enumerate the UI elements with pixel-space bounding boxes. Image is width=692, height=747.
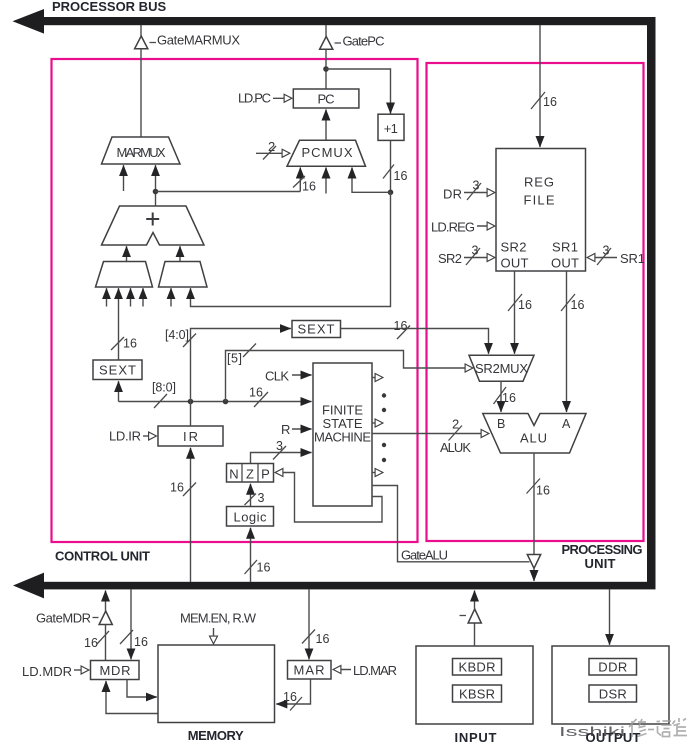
- node +1 output junction: [388, 190, 394, 196]
- svg-text:SR2MUX: SR2MUX: [475, 361, 528, 376]
- svg-text:PROCESSING: PROCESSING: [562, 542, 643, 557]
- svg-text:[8:0]: [8:0]: [152, 381, 176, 395]
- svg-text:MEM.EN, R.W: MEM.EN, R.W: [180, 611, 257, 626]
- svg-text:3: 3: [473, 179, 480, 193]
- svg-text:16: 16: [123, 337, 137, 351]
- memory block MEMORY: [158, 645, 275, 743]
- mux MARMUX: [102, 137, 181, 164]
- svg-text:ALUK: ALUK: [440, 440, 471, 455]
- svg-text:MACHINE: MACHINE: [314, 430, 371, 445]
- node PC output junction: [323, 66, 329, 72]
- wire bus to IR: [190, 448, 192, 582]
- wire junction down to ADDR1MUX: [191, 192, 391, 306]
- bus width slash 16 IR to FSM: [249, 386, 268, 408]
- wire PCMUX to PC: [325, 110, 327, 141]
- bus width slash 3 on NZP wire: [273, 439, 286, 460]
- wire IR[8:0] to SEXT: [118, 381, 120, 401]
- svg-text:16: 16: [257, 561, 271, 575]
- svg-text:3: 3: [472, 244, 479, 258]
- system bus (bottom): [13, 573, 656, 599]
- processor bus (top): [13, 9, 656, 34]
- sign extender SEXT [8:0]: [93, 360, 142, 380]
- alu ALU: [483, 414, 586, 454]
- signal R: [281, 422, 312, 437]
- svg-text:GateMDR: GateMDR: [36, 611, 91, 626]
- svg-text:LD.MAR: LD.MAR: [353, 663, 397, 678]
- svg-text:MARMUX: MARMUX: [117, 145, 166, 160]
- tri-state buffer GatePC: [320, 34, 385, 50]
- wire SEXT2 output to SR2MUX: [341, 329, 489, 354]
- bus width slash 16 on Logic input: [245, 560, 271, 575]
- bus width slash 16 on SR2MUX output: [494, 387, 516, 405]
- svg-text:16: 16: [571, 298, 585, 312]
- svg-text:KBDR: KBDR: [459, 660, 496, 675]
- adder: [102, 206, 205, 245]
- svg-text:GatePC: GatePC: [343, 34, 385, 49]
- signal LD.REG: [431, 220, 495, 235]
- wire bus to Logic: [250, 528, 252, 582]
- node adder output junction: [153, 189, 159, 195]
- svg-text:UNIT: UNIT: [585, 556, 616, 571]
- wire bus to MDR: [130, 589, 132, 659]
- wire SR1OUT to ALU: [566, 271, 568, 412]
- svg-text:GateALU: GateALU: [401, 548, 448, 563]
- increment unit +1: [378, 114, 404, 140]
- wire IR[4:0] to SEXT2: [191, 329, 291, 402]
- FSM output arrow 1: [372, 377, 383, 379]
- control unit box: [52, 59, 418, 542]
- logic block Logic: [227, 507, 274, 527]
- svg-text:FILE: FILE: [524, 193, 555, 208]
- wire ADDR2MUX input stub 3: [130, 288, 132, 306]
- register MDR: [91, 661, 140, 680]
- bus width slash 16 on REG FILE input: [531, 92, 557, 109]
- wire ADDR2MUX input stub 1: [106, 288, 108, 306]
- node IR junction: [188, 399, 194, 405]
- wire junction to +1: [326, 69, 391, 114]
- svg-text:MDR: MDR: [100, 663, 131, 678]
- svg-text:SEXT: SEXT: [298, 322, 335, 337]
- svg-text:N: N: [229, 467, 238, 482]
- svg-text:B: B: [497, 417, 505, 431]
- bus width slash 16 on MAR input: [302, 630, 329, 647]
- svg-text:INPUT: INPUT: [455, 730, 497, 745]
- svg-text:3: 3: [258, 491, 265, 505]
- wire IR[5] to SR2MUX select: [226, 351, 473, 402]
- svg-text:SR2: SR2: [438, 251, 462, 266]
- processing unit label: [562, 542, 643, 571]
- watermark: [559, 718, 687, 739]
- sign extender SEXT [4:0]: [292, 321, 341, 338]
- svg-text:OUT: OUT: [551, 256, 579, 271]
- signal MEM.EN, R.W: [180, 611, 257, 644]
- wire GateALU buffer to bus: [533, 568, 535, 581]
- wire bus to MAR: [308, 589, 310, 659]
- register KBSR: [453, 685, 502, 702]
- svg-text:16: 16: [84, 636, 98, 650]
- svg-text:P: P: [261, 467, 270, 482]
- signal SR1 with slash 3: [588, 244, 646, 267]
- wire ALU output to GateALU buffer: [533, 453, 535, 555]
- FSM output arrow 3: [372, 472, 383, 474]
- signal CLK: [265, 369, 312, 384]
- bus width slash 16 on MDR output: [84, 631, 109, 650]
- svg-text:SR1: SR1: [620, 251, 645, 266]
- svg-text:PC: PC: [318, 92, 335, 107]
- bus width slash 3 on Logic output: [245, 491, 265, 505]
- wire bus to REG FILE: [539, 25, 541, 147]
- tri-state buffer GateMARMUX: [135, 33, 241, 49]
- wire bus to GateMARMUX: [140, 25, 142, 36]
- register DDR: [589, 659, 637, 676]
- svg-text:LD.REG: LD.REG: [431, 220, 475, 235]
- FSM output arrow 2: [372, 422, 383, 424]
- label ALUK with slash 2: [440, 417, 471, 456]
- signal LD.MAR: [334, 663, 398, 678]
- svg-text:Isshiki: Isshiki: [559, 724, 625, 739]
- wire +1 output to junction: [390, 140, 392, 192]
- signal LD.MDR: [22, 664, 89, 679]
- tri-state buffer GateALU: [527, 555, 540, 569]
- svg-text:CLK: CLK: [265, 369, 289, 384]
- wire SR2OUT to SR2MUX: [514, 271, 516, 354]
- wire adder junction to PCMUX left input: [156, 191, 301, 193]
- output device block OUTPUT: [552, 646, 669, 745]
- wire PCMUX middle input stub: [325, 168, 327, 194]
- PCMUX select input 2: [256, 139, 290, 160]
- wire IR to junction: [190, 402, 192, 427]
- wire GatePC to PC: [325, 49, 327, 89]
- svg-text:Z: Z: [246, 467, 254, 482]
- register file REG FILE: [496, 149, 586, 272]
- svg-text:DSR: DSR: [599, 687, 627, 702]
- svg-text:2: 2: [268, 139, 275, 154]
- svg-text:KBSR: KBSR: [459, 687, 495, 702]
- tri-state buffer GateMDR: [36, 611, 112, 626]
- wire LD.CC FSM to NZP: [276, 473, 383, 523]
- svg-text:IR: IR: [183, 429, 198, 444]
- condition codes register NZP: [227, 464, 274, 483]
- wire IR output horizontal to FSM: [119, 401, 312, 403]
- svg-text:+1: +1: [384, 121, 398, 136]
- bus width slash 16 on SR1OUT: [561, 294, 584, 312]
- mux PCMUX: [287, 140, 366, 166]
- svg-text:LD.IR: LD.IR: [109, 429, 141, 444]
- label [5] with slash: [227, 344, 256, 366]
- processing unit box: [427, 63, 644, 541]
- wire bus to OUTPUT: [609, 589, 611, 645]
- svg-text:GateMARMUX: GateMARMUX: [157, 33, 240, 48]
- svg-text:16: 16: [518, 298, 532, 312]
- svg-text:16: 16: [302, 180, 316, 194]
- label [8:0] with slash: [152, 381, 176, 409]
- svg-text:3: 3: [603, 244, 610, 258]
- svg-text:16: 16: [543, 95, 557, 109]
- bus width slash 16 on +1 output: [383, 165, 407, 184]
- svg-text:A: A: [562, 417, 571, 431]
- wire adder to MARMUX right input: [155, 165, 157, 206]
- register IR: [158, 426, 223, 446]
- svg-text:[4:0]: [4:0]: [165, 328, 189, 342]
- svg-text:SR2: SR2: [501, 240, 527, 255]
- wire junction to PCMUX right input: [352, 168, 391, 193]
- FSM output dots group 2: [382, 443, 386, 462]
- signal LD.PC: [238, 91, 292, 106]
- svg-text:[5]: [5]: [227, 352, 242, 366]
- svg-text:MAR: MAR: [294, 663, 325, 678]
- wire MEMORY to MDR: [106, 681, 158, 714]
- finite state machine U-FSM: [313, 363, 372, 506]
- svg-text:16: 16: [536, 484, 550, 498]
- wire input gate to bus: [474, 591, 476, 610]
- wire MDR to MEMORY: [127, 680, 157, 698]
- svg-text:MEMORY: MEMORY: [188, 728, 244, 743]
- svg-text:LD.PC: LD.PC: [238, 91, 271, 106]
- wire SEXT to ADDR2MUX input 2: [118, 288, 120, 360]
- svg-text:PROCESSOR BUS: PROCESSOR BUS: [52, 0, 166, 14]
- wire ADDR1MUX to adder right input: [179, 246, 181, 261]
- svg-text:16: 16: [134, 635, 148, 649]
- svg-text:16: 16: [249, 386, 263, 400]
- svg-text:16: 16: [502, 391, 516, 405]
- input device block INPUT: [416, 646, 533, 745]
- bus width slash 16 on SR2OUT: [508, 294, 532, 312]
- signal LD.IR: [109, 429, 156, 444]
- svg-text:LD.MDR: LD.MDR: [22, 664, 72, 679]
- register KBDR: [453, 659, 502, 676]
- svg-text:ALU: ALU: [520, 431, 547, 446]
- mux SR2MUX: [469, 355, 534, 381]
- svg-text:16: 16: [170, 481, 184, 495]
- node [5] junction: [223, 399, 229, 405]
- bus width slash 16 on PCMUX left input: [293, 176, 316, 194]
- wire GateMARMUX to MARMUX: [140, 49, 142, 137]
- svg-text:DDR: DDR: [598, 660, 627, 675]
- wire MAR to MEMORY: [276, 679, 310, 704]
- bus width slash 16 on IR input: [170, 481, 196, 497]
- wire Logic to NZP: [250, 484, 252, 507]
- wire bus to GatePC: [325, 25, 327, 37]
- register PC: [293, 89, 359, 108]
- svg-text:Logic: Logic: [234, 510, 268, 525]
- mux ADDR1MUX: [159, 262, 208, 288]
- wire SR2MUX to ALU B: [500, 381, 502, 412]
- svg-text:CONTROL UNIT: CONTROL UNIT: [55, 549, 150, 564]
- register MAR: [288, 661, 332, 680]
- wire GateALU control: [372, 486, 530, 562]
- wire ALUK FSM to ALU: [372, 433, 489, 435]
- FSM output dots group 1: [382, 393, 386, 412]
- svg-text:16: 16: [283, 690, 297, 704]
- svg-text:SR1: SR1: [552, 240, 578, 255]
- svg-text:16: 16: [316, 632, 330, 646]
- wire MDR to GateMDR buffer: [105, 625, 107, 661]
- bus width slash 16 on SEXT output: [111, 337, 137, 351]
- tri-state buffer input gate: [460, 609, 482, 623]
- bus width slash 16 on SEXT2 output: [394, 319, 411, 339]
- register DSR: [589, 685, 637, 702]
- bus right vertical bar: [647, 17, 656, 589]
- label [4:0] with slash: [165, 328, 196, 347]
- mux ADDR2MUX: [96, 262, 153, 288]
- wire GateMDR to bus: [105, 591, 107, 612]
- wire MARMUX left input stub: [123, 165, 125, 191]
- svg-text:R: R: [281, 422, 290, 437]
- bus width slash 16 on MDR input: [120, 630, 148, 649]
- signal SR2 with slash 3: [438, 244, 495, 267]
- wire PCMUX left input: [299, 168, 301, 192]
- svg-text:PCMUX: PCMUX: [302, 145, 353, 160]
- svg-text:DR: DR: [443, 187, 462, 202]
- bus width slash 16 on MAR to MEMORY: [283, 690, 302, 711]
- wire INPUT to gate buffer: [474, 623, 476, 646]
- bus width slash 16 on ALU output: [527, 479, 550, 498]
- signal DR with slash 3: [443, 179, 495, 202]
- svg-text:SEXT: SEXT: [99, 363, 136, 378]
- svg-text:16: 16: [394, 169, 408, 183]
- wire NZP to FSM: [251, 453, 312, 464]
- wire ADDR1MUX input stub: [170, 288, 172, 306]
- wire ADDR2MUX to adder left input: [126, 246, 128, 261]
- wire ADDR2MUX input stub 4: [142, 288, 144, 306]
- svg-text:REG: REG: [524, 175, 554, 190]
- svg-text:OUT: OUT: [501, 256, 529, 271]
